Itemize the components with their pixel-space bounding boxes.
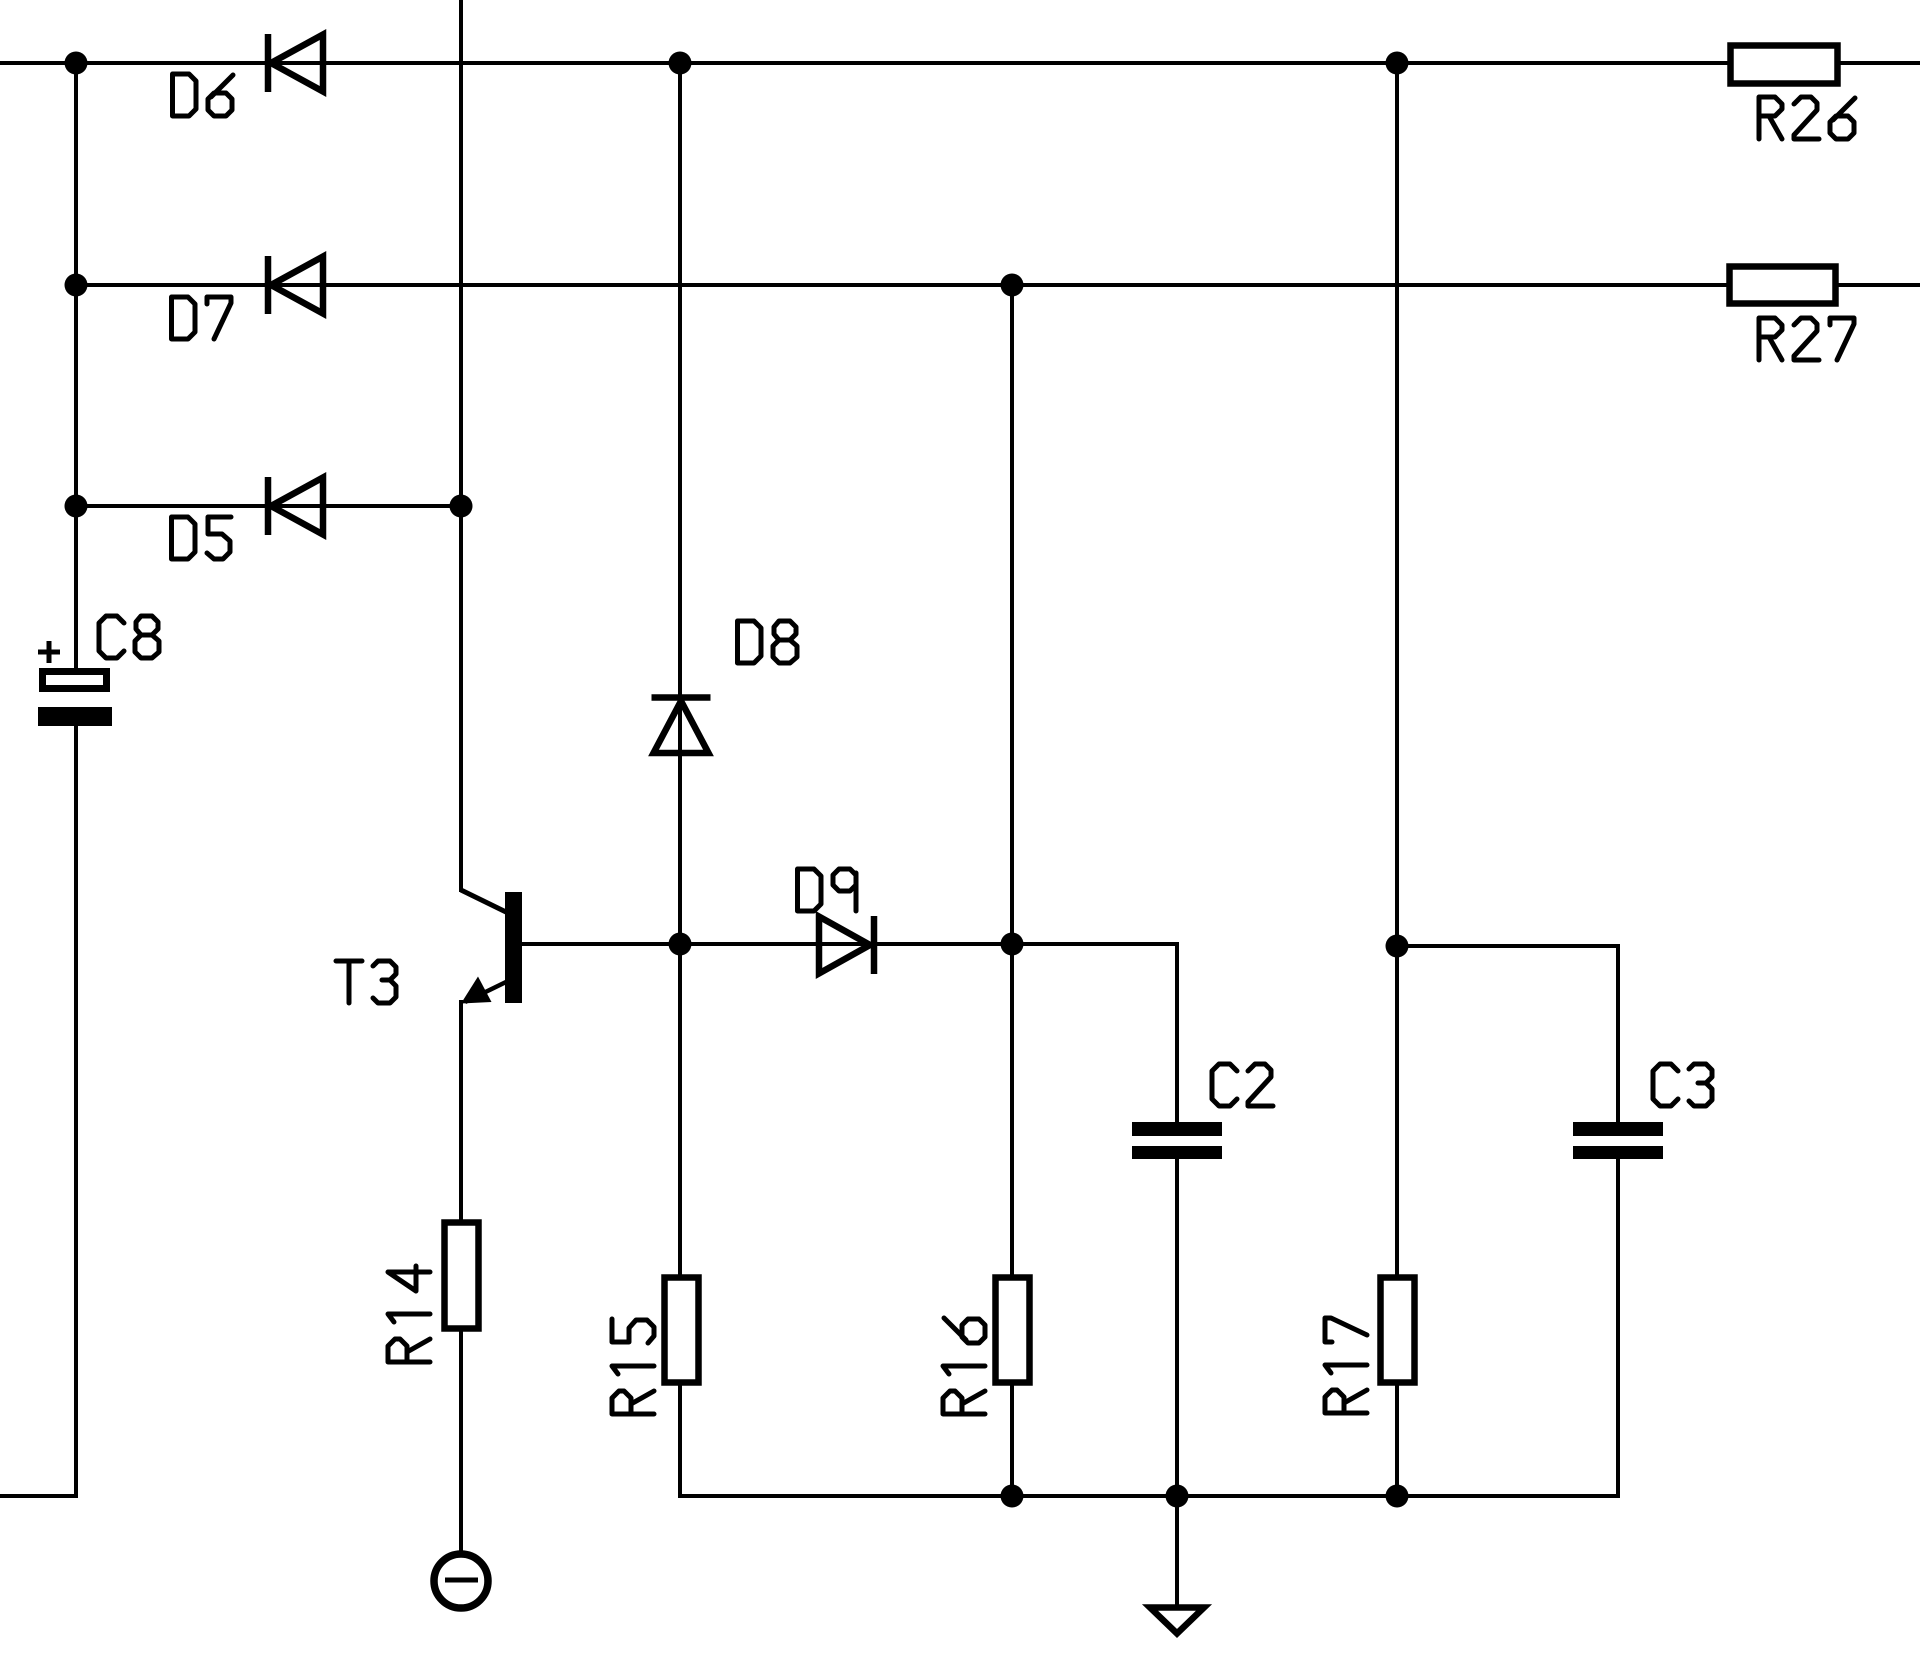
wire R17 to bottom rail	[1395, 1386, 1399, 1496]
label D8	[738, 621, 798, 663]
label R15	[612, 1319, 654, 1414]
wire row3	[76, 504, 461, 508]
wire C2 branch vertical lower	[1175, 1158, 1179, 1606]
diode D8	[652, 698, 711, 754]
wire bottom rail	[680, 1494, 1618, 1498]
wire row2 right	[1838, 283, 1920, 287]
wire emitter column	[459, 1002, 463, 1219]
capacitor C8	[38, 641, 112, 726]
wire row2	[76, 283, 1726, 287]
wire base row	[522, 942, 1177, 946]
wire C2 branch vertical upper	[1175, 944, 1179, 1122]
label C8	[99, 616, 159, 658]
wire left column upper	[74, 63, 78, 668]
resistor R17	[1381, 1278, 1415, 1383]
diode D5	[268, 477, 323, 535]
wire C3 branch horizontal	[1397, 944, 1618, 948]
node top D8 column	[669, 52, 692, 75]
node bottom R16	[1001, 1485, 1024, 1508]
wire bottom left stub	[0, 1494, 76, 1498]
supply terminal circle	[434, 1554, 488, 1608]
node row2 left	[65, 274, 88, 297]
label D5	[172, 517, 232, 559]
label R26	[1759, 97, 1855, 139]
capacitor C2	[1132, 1122, 1222, 1159]
resistor R26	[1731, 46, 1838, 84]
node C3 branch	[1386, 935, 1409, 958]
node bottom C2	[1166, 1485, 1189, 1508]
resistor R16	[996, 1278, 1030, 1383]
capacitor C3	[1573, 1122, 1663, 1159]
label R14	[388, 1266, 430, 1362]
wire top rail right	[1841, 61, 1920, 65]
label D9	[798, 869, 857, 911]
resistor R14	[445, 1223, 479, 1329]
label R16	[943, 1318, 985, 1414]
ground	[1150, 1608, 1204, 1634]
wire R16 to bottom rail	[1010, 1386, 1014, 1496]
wire C3 branch vertical lower	[1616, 1158, 1620, 1496]
diode D6	[268, 34, 323, 92]
node row3 left	[65, 495, 88, 518]
diode D9	[819, 916, 874, 974]
wire collector column	[459, 0, 463, 890]
wire R17 column	[1395, 63, 1399, 1274]
label C2	[1212, 1064, 1273, 1106]
node base R16	[1001, 933, 1024, 956]
node row3 collector	[450, 495, 473, 518]
diode D7	[268, 256, 323, 314]
label D6	[173, 74, 234, 116]
resistor R15	[665, 1278, 699, 1383]
node base D8	[669, 933, 692, 956]
node top-left	[65, 52, 88, 75]
node bottom R17	[1386, 1485, 1409, 1508]
transistor T3	[461, 890, 522, 1004]
label R27	[1759, 318, 1854, 360]
node row2 R16 column	[1001, 274, 1024, 297]
label C3	[1653, 1064, 1712, 1106]
wire top rail	[0, 61, 1727, 65]
wire left column lower	[74, 726, 78, 1496]
wire R16 column	[1010, 285, 1014, 1274]
label D7	[172, 297, 232, 339]
wire C3 branch vertical upper	[1616, 946, 1620, 1122]
label R17	[1325, 1318, 1367, 1413]
wire R14 to supply circle	[459, 1332, 463, 1554]
wire R15 to bottom rail	[678, 1386, 682, 1496]
wire D8 column	[678, 63, 682, 1274]
resistor R27	[1730, 267, 1836, 304]
label T3	[336, 961, 396, 1003]
node top R17 column	[1386, 52, 1409, 75]
